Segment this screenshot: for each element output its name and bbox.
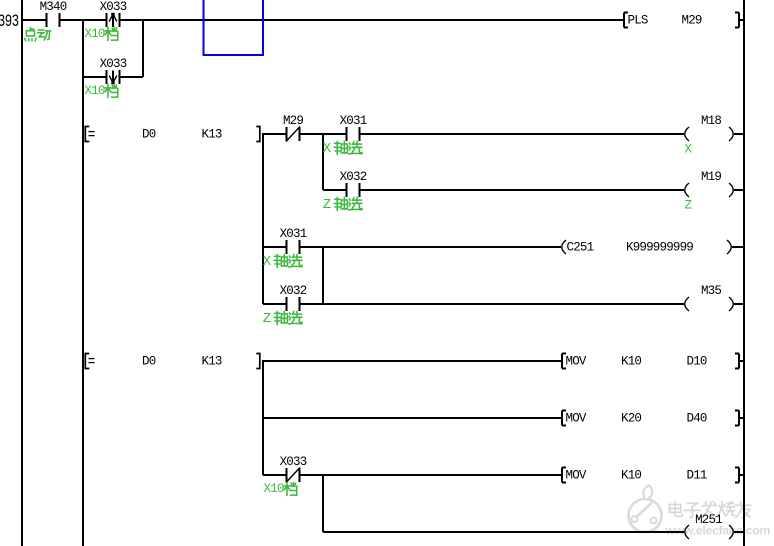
svg-text:Z: Z bbox=[323, 197, 331, 213]
svg-text:K13: K13 bbox=[202, 355, 222, 369]
svg-text:MOV: MOV bbox=[566, 355, 587, 369]
svg-text:X: X bbox=[263, 254, 272, 270]
svg-text:393: 393 bbox=[0, 11, 19, 32]
svg-text:MOV: MOV bbox=[566, 469, 587, 483]
svg-text:D0: D0 bbox=[142, 128, 156, 142]
svg-text:X033: X033 bbox=[280, 455, 307, 469]
svg-text:M35: M35 bbox=[701, 284, 721, 298]
svg-text:C251: C251 bbox=[567, 241, 594, 255]
svg-text:M18: M18 bbox=[701, 114, 721, 128]
svg-text:X033: X033 bbox=[100, 57, 127, 71]
svg-text:PLS: PLS bbox=[628, 14, 648, 28]
svg-text:X031: X031 bbox=[340, 114, 367, 128]
svg-text:X10: X10 bbox=[85, 84, 105, 98]
svg-text:X032: X032 bbox=[280, 284, 307, 298]
svg-text:M29: M29 bbox=[682, 14, 702, 28]
svg-text:Z: Z bbox=[263, 311, 271, 327]
svg-text:X: X bbox=[323, 141, 332, 157]
svg-text:K999999999: K999999999 bbox=[626, 241, 693, 255]
svg-text:X: X bbox=[685, 143, 693, 157]
svg-text:K20: K20 bbox=[621, 412, 641, 426]
svg-text:X033: X033 bbox=[100, 0, 127, 14]
svg-text:M19: M19 bbox=[701, 170, 721, 184]
svg-text:X10: X10 bbox=[85, 27, 105, 41]
svg-text:D11: D11 bbox=[687, 469, 707, 483]
svg-text:M29: M29 bbox=[283, 114, 303, 128]
svg-text:K10: K10 bbox=[621, 355, 641, 369]
svg-text:Z: Z bbox=[685, 199, 693, 213]
svg-text:K10: K10 bbox=[621, 469, 641, 483]
svg-text:M340: M340 bbox=[40, 0, 67, 14]
svg-text:K13: K13 bbox=[202, 128, 222, 142]
svg-text:D0: D0 bbox=[142, 355, 156, 369]
svg-text:X031: X031 bbox=[280, 227, 307, 241]
svg-text:D10: D10 bbox=[687, 355, 707, 369]
svg-text:X032: X032 bbox=[340, 170, 367, 184]
svg-text:M251: M251 bbox=[695, 513, 722, 527]
svg-text:MOV: MOV bbox=[566, 412, 587, 426]
svg-text:D40: D40 bbox=[687, 412, 707, 426]
svg-text:X10: X10 bbox=[264, 482, 284, 496]
